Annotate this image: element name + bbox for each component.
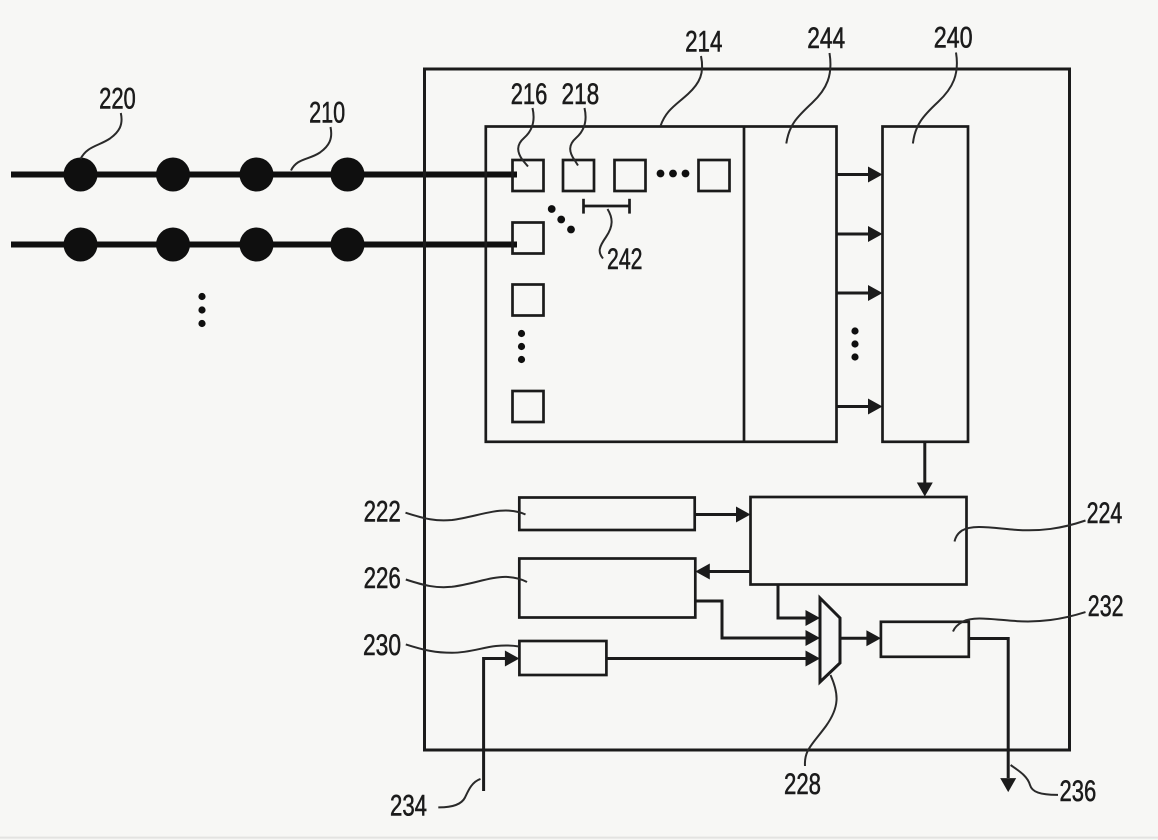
svg-text:232: 232 bbox=[1088, 590, 1124, 623]
leader for label 228 bbox=[805, 675, 837, 766]
mux 228 bbox=[820, 598, 840, 682]
leader for label 216 bbox=[518, 108, 533, 167]
block 222 bbox=[519, 498, 694, 531]
ellipsis: vertical dots in array bbox=[518, 330, 525, 363]
ellipsis: horizontal dots row1 bbox=[657, 170, 690, 178]
node: memory cell dot 3 on bus 1 bbox=[240, 158, 274, 192]
leader for label 230 bbox=[406, 644, 519, 652]
ellipsis: diagonal dots bbox=[548, 205, 575, 233]
block 230 bbox=[519, 641, 606, 675]
leader for label 244 bbox=[786, 53, 830, 144]
arrow: 240 down to 224 bbox=[917, 442, 933, 497]
node: memory cell dot 2 on bus 1 bbox=[156, 158, 190, 192]
node: memory cell dot 1 on bus 1 bbox=[64, 158, 98, 192]
block 244: column divider bbox=[743, 127, 746, 442]
leader for label 214 bbox=[661, 56, 703, 126]
leader for label 218 bbox=[570, 108, 585, 166]
cell: square row1 col3 bbox=[615, 160, 646, 191]
arrow: 214 to 240 row2 bbox=[837, 226, 883, 242]
cell: square row3 col1 bbox=[513, 285, 544, 316]
block 232 bbox=[881, 622, 969, 657]
node: memory cell dot 4 on bus 2 bbox=[331, 228, 365, 262]
node: memory cell dot 4 on bus 1 bbox=[331, 158, 365, 192]
svg-text:234: 234 bbox=[390, 790, 427, 823]
leader for label 224 bbox=[955, 521, 1086, 542]
ellipsis: dots between arrows bbox=[851, 327, 858, 360]
svg-text:236: 236 bbox=[1060, 775, 1097, 808]
cell: square row1 col4 bbox=[699, 160, 730, 191]
leader for label 222 bbox=[406, 510, 526, 520]
cell 216: square row1 col1 bbox=[513, 160, 544, 191]
arrow: 214 to 240 row4 bbox=[837, 399, 883, 415]
svg-text:210: 210 bbox=[309, 97, 345, 130]
wire: input 234 up into 230 bbox=[484, 651, 520, 792]
svg-text:244: 244 bbox=[807, 22, 845, 55]
leader for label 220 bbox=[81, 113, 122, 159]
node: memory cell dot 1 on bus 2 bbox=[64, 228, 98, 262]
block 214: sense amplifier array box bbox=[486, 127, 837, 442]
svg-text:216: 216 bbox=[511, 78, 548, 111]
outer block boundary bbox=[425, 69, 1070, 750]
svg-text:242: 242 bbox=[607, 243, 643, 276]
arrow: 224 to 226 bbox=[695, 564, 750, 580]
cell: square row2 col1 bbox=[513, 223, 544, 254]
arrow: 222 to 224 bbox=[695, 507, 751, 523]
svg-text:220: 220 bbox=[99, 83, 136, 116]
cell: square row4 col1 bbox=[513, 391, 544, 422]
leader for label 232 bbox=[953, 612, 1086, 631]
page bottom edge artifact bbox=[0, 837, 1158, 839]
block 240: right tall box bbox=[883, 127, 969, 442]
leader for label 226 bbox=[406, 577, 527, 587]
svg-text:222: 222 bbox=[364, 496, 401, 529]
leader for label 240 bbox=[913, 53, 957, 144]
block 224 bbox=[751, 497, 967, 585]
wire: 226 to mux input 2 bbox=[695, 601, 820, 646]
node: memory cell dot 3 on bus 2 bbox=[240, 228, 274, 262]
block 226 bbox=[519, 559, 695, 618]
arrow: mux to 232 bbox=[840, 630, 881, 646]
leader for label 242 bbox=[600, 209, 612, 259]
wire: 232 output down through boundary, arrow 236 bbox=[969, 639, 1016, 793]
wire: 230 to mux input 3 bbox=[606, 651, 820, 667]
node: memory cell dot 2 on bus 2 bbox=[156, 228, 190, 262]
leader for label 210 bbox=[291, 127, 331, 171]
leader for label 236 bbox=[1011, 765, 1058, 795]
svg-text:218: 218 bbox=[562, 78, 600, 111]
dimension bracket 242 bbox=[584, 199, 630, 214]
svg-text:224: 224 bbox=[1087, 497, 1123, 530]
leader for label 234 bbox=[438, 779, 480, 808]
wire: 224 bottom to mux input 1 bbox=[778, 585, 820, 627]
cell 218: square row1 col2 bbox=[563, 160, 594, 191]
arrow: 214 to 240 row1 bbox=[837, 167, 883, 183]
svg-text:214: 214 bbox=[685, 25, 722, 58]
arrow: 214 to 240 row3 bbox=[837, 285, 883, 301]
svg-text:226: 226 bbox=[364, 562, 401, 595]
ellipsis: more buses (vertical dots) bbox=[198, 293, 205, 327]
wire: word line bus 1 bbox=[11, 172, 517, 178]
svg-text:240: 240 bbox=[934, 22, 973, 55]
svg-text:230: 230 bbox=[363, 629, 401, 662]
wire: word line bus 2 bbox=[11, 242, 517, 248]
svg-text:228: 228 bbox=[784, 768, 821, 801]
